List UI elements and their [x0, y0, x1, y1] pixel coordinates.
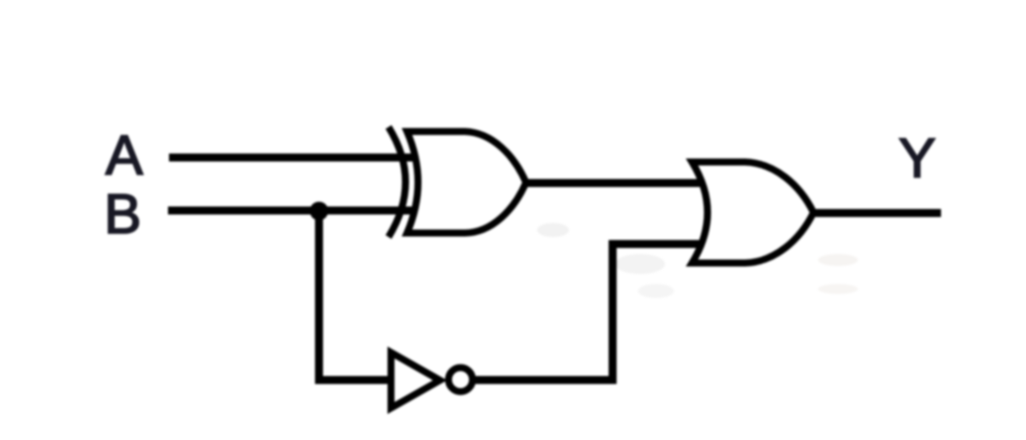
XOR gate U1 body — [407, 132, 526, 234]
svg-text:Y: Y — [899, 126, 936, 189]
jpeg smudge 3 — [638, 284, 674, 298]
svg-text:B: B — [104, 182, 141, 245]
wire A input to XOR gate — [169, 154, 418, 162]
jpeg smudge 1 — [537, 223, 569, 237]
XOR gate U1 input arc — [389, 127, 406, 237]
jpeg smudge 4 — [818, 254, 858, 266]
wire OR output to Y — [810, 209, 941, 217]
wire NOT output right, up, and right to OR bottom input — [468, 244, 708, 380]
junction dot on B — [310, 202, 329, 221]
NOT gate U2 triangle — [391, 353, 440, 409]
wire XOR output to OR top input — [521, 179, 706, 187]
wire B input to XOR gate — [168, 207, 418, 215]
jpeg smudge 2 — [615, 254, 665, 274]
svg-text:A: A — [106, 123, 144, 186]
OR gate U3 body — [692, 162, 814, 263]
wire B branch down and right to NOT input — [319, 211, 391, 380]
jpeg smudge 5 — [818, 284, 858, 294]
NOT gate U2 bubble — [449, 368, 473, 392]
